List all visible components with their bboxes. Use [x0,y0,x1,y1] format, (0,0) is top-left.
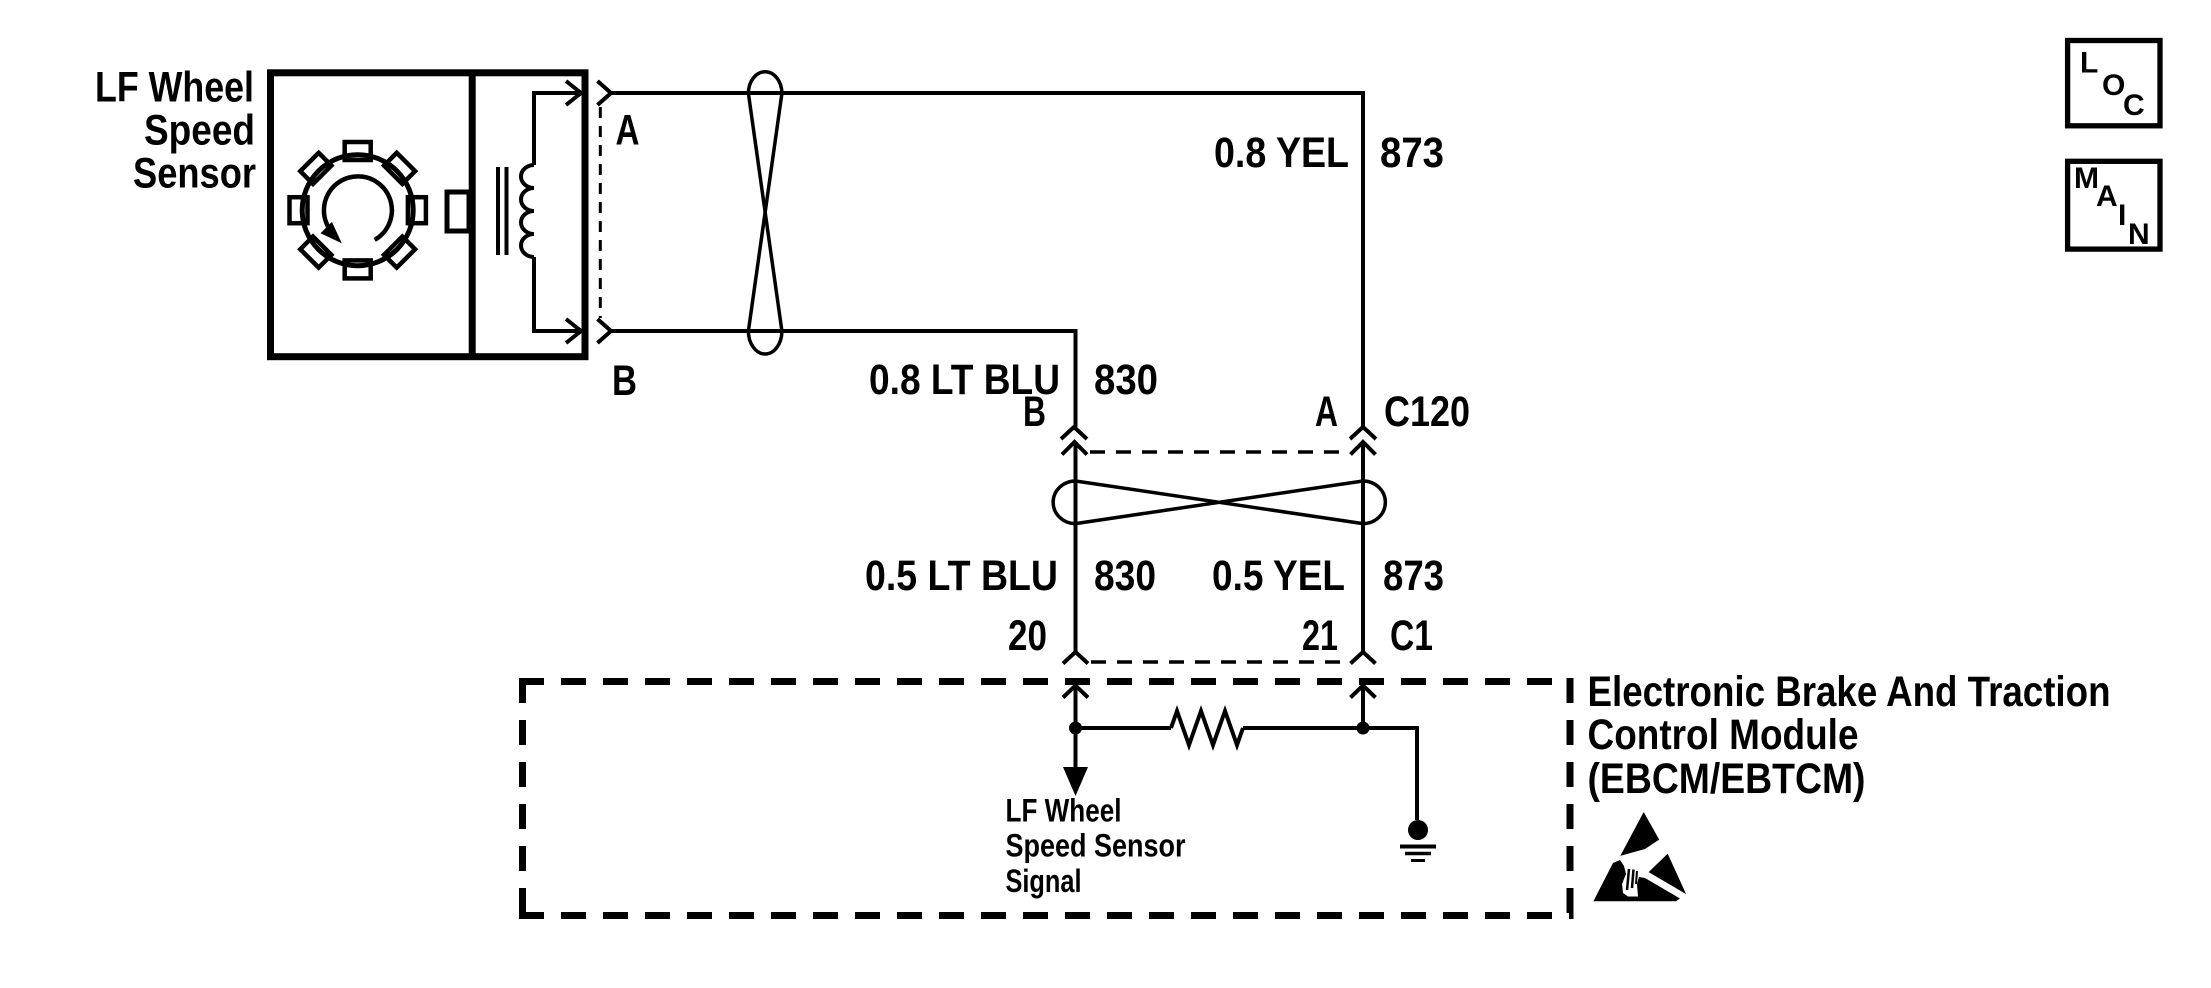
ground symbol [1408,820,1428,840]
sensor box outline [271,73,586,357]
svg-text:LF Wheel: LF Wheel [1006,793,1122,829]
svg-text:B: B [1023,388,1046,436]
connector C1 chevron pin 21 [1351,652,1376,664]
wire 830 vertical (pin B to 20) [1074,443,1078,652]
connector chevron pin B [598,319,612,343]
wire 873 vertical (pin A to 21) [1361,443,1365,652]
svg-text:0.5 LT BLU: 0.5 LT BLU [865,552,1058,600]
inductor coil [521,165,534,257]
tone wheel teeth [290,142,426,278]
EBCM entry chevron pin 21 [1351,686,1376,698]
wire pin21 down to junction [1361,686,1365,729]
EBCM entry chevron pin 20 [1063,686,1088,698]
svg-text:A: A [1315,388,1338,436]
LOC box [2068,41,2160,126]
twisted pair symbol (vertical) [748,72,782,354]
svg-text:Control Module: Control Module [1588,711,1859,759]
wire junction to resistor left [1076,726,1172,730]
svg-text:Speed: Speed [144,107,255,155]
svg-text:C1: C1 [1390,612,1433,660]
connector C120 chevrons left [1061,427,1087,455]
connector C1 chevron pin 20 [1063,652,1088,664]
resistor [1171,711,1243,745]
pickup block [447,192,469,231]
svg-text:0.8 YEL: 0.8 YEL [1214,129,1349,177]
svg-text:Speed Sensor: Speed Sensor [1006,827,1186,863]
svg-text:L: L [2080,47,2098,80]
connector C120 dashed line [1090,450,1350,454]
svg-text:N: N [2128,218,2150,251]
wire coil to pin B [534,257,578,331]
svg-text:21: 21 [1302,612,1338,660]
wire B horizontal [611,331,1076,427]
svg-text:O: O [2102,69,2125,102]
signal arrow down [1063,767,1088,796]
tone wheel circle [302,155,413,266]
coil core lines [496,167,500,255]
wire pin20 down to junction [1074,686,1078,771]
wire coil to pin A [534,93,578,165]
svg-text:0.5 YEL: 0.5 YEL [1212,552,1345,600]
rotation arrow arc [324,176,392,240]
svg-text:A: A [2096,180,2118,213]
svg-text:Electronic Brake And Traction: Electronic Brake And Traction [1588,668,2111,716]
connector C1 dashed line [1091,660,1350,664]
wire A horizontal [611,93,1363,427]
svg-text:C: C [2123,89,2145,122]
svg-text:830: 830 [1094,356,1158,404]
svg-text:873: 873 [1383,552,1444,600]
twisted pair symbol (horizontal) [1053,481,1385,524]
svg-text:I: I [2118,199,2126,232]
signal text [1006,793,1186,899]
rotation arrow head [321,222,342,243]
svg-text:Sensor: Sensor [133,150,256,198]
svg-text:C120: C120 [1384,388,1470,436]
wire resistor to ground branch [1243,728,1417,820]
junction dot left [1069,722,1082,735]
label: LF Wheel Speed Sensor [95,64,256,198]
sensor box divider [469,73,476,357]
ESD warning symbol [1593,812,1686,901]
EBCM dashed border [519,678,1574,919]
svg-text:LF Wheel: LF Wheel [95,64,254,112]
svg-text:B: B [612,357,637,405]
svg-text:20: 20 [1008,612,1047,660]
arrowhead pin B (inside box) [566,319,581,343]
svg-text:830: 830 [1094,552,1156,600]
connector dashed line [599,107,602,318]
connector chevron pin A [598,81,612,105]
svg-text:A: A [616,107,640,155]
MAIN box [2068,161,2160,249]
arrowhead pin A (inside box) [566,81,581,105]
svg-text:Signal: Signal [1006,863,1082,899]
connector C120 chevrons right [1350,427,1376,455]
svg-text:873: 873 [1380,129,1444,177]
EBCM label [1588,668,2111,803]
junction dot right [1357,722,1370,735]
svg-text:(EBCM/EBTCM): (EBCM/EBTCM) [1588,755,1866,803]
